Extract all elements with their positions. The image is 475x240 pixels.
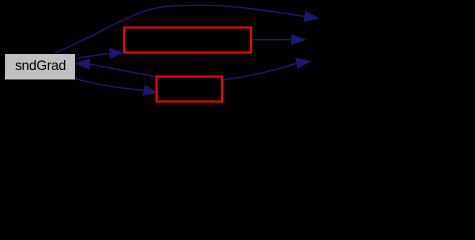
node red box 1 (truncated): [124, 28, 251, 53]
node red box 2 (truncated): [157, 77, 223, 102]
edge recon2->sndGrad (return arrow): [76, 59, 158, 77]
edge sndGrad->node4 (top arc): [55, 5, 318, 52]
edge recon2->node4: [223, 58, 310, 80]
edge sndGrad->recon1: [76, 49, 123, 59]
svg-text:sndGrad: sndGrad: [15, 58, 66, 73]
edge recon1->node4 (horizontal): [252, 35, 305, 45]
edge sndGrad->recon2: [75, 79, 157, 96]
node sndGrad (current, gray): [5, 54, 76, 81]
